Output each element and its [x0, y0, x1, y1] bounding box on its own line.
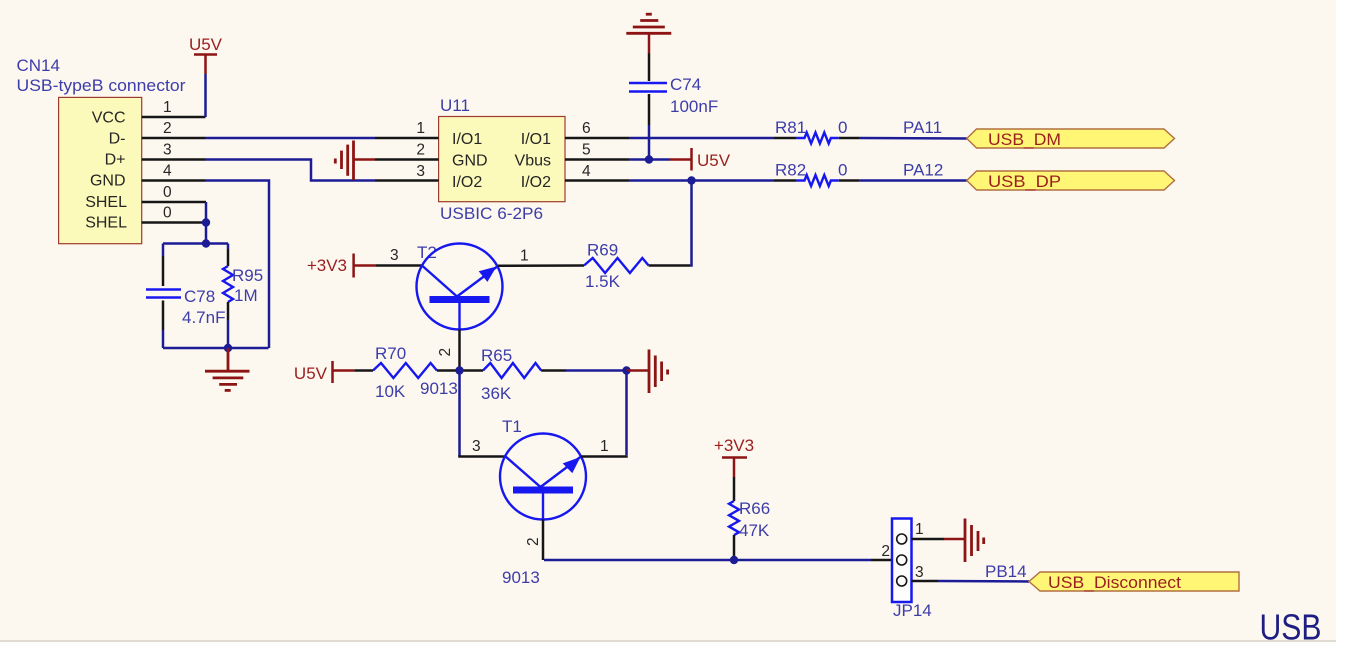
pin T2-1	[498, 264, 584, 267]
wire T1 emitter to JP14	[544, 559, 871, 562]
pin T2-2	[458, 330, 461, 371]
svg-text:4: 4	[582, 163, 591, 180]
svg-text:R66: R66	[739, 499, 770, 518]
svg-text:USB-typeB connector: USB-typeB connector	[17, 76, 186, 95]
pin C78 bottom	[162, 301, 165, 331]
wire RC loop top	[163, 242, 228, 245]
wire Vbus net	[629, 158, 670, 161]
pin R81 left	[774, 137, 796, 140]
svg-text:4: 4	[163, 163, 172, 180]
pin U11-2	[375, 158, 439, 161]
svg-text:GND: GND	[90, 173, 126, 190]
svg-text:D-: D-	[109, 131, 126, 148]
pin R95 top	[227, 249, 230, 266]
pin R66 bottom	[733, 535, 736, 560]
pin T1-2	[542, 520, 545, 561]
svg-text:U5V: U5V	[697, 151, 731, 170]
pin T1-3	[458, 455, 505, 458]
junction SHEL2	[202, 218, 210, 226]
wire R65 to ground junction	[566, 369, 627, 372]
svg-text:C78: C78	[184, 287, 215, 306]
wire T2 down corner to T1 pin3	[458, 455, 461, 457]
svg-text:R82: R82	[775, 161, 806, 180]
wire SHEL down to RC loop	[205, 223, 208, 244]
junction USB_DP / R69 branch	[687, 176, 695, 184]
svg-text:USB_DP: USB_DP	[988, 172, 1061, 191]
wire RC loop bottom	[163, 347, 269, 350]
resistor R66	[729, 501, 739, 535]
resistor R81	[796, 133, 838, 144]
pin CN14-SHEL1	[142, 201, 206, 204]
pin CN14-SHEL2	[142, 221, 206, 224]
ground symbol sideways right of R65	[627, 350, 668, 394]
pin R70 left	[354, 369, 373, 372]
pin R65 left	[460, 369, 484, 372]
pin R82 left	[774, 179, 796, 182]
svg-text:1: 1	[915, 521, 924, 538]
wire R95 to bottom	[227, 320, 230, 348]
pin C74 top	[648, 54, 651, 82]
wire D- net CN14 to U11	[206, 137, 376, 140]
svg-text:1: 1	[163, 99, 172, 116]
svg-text:I/O1: I/O1	[452, 131, 482, 148]
svg-text:3: 3	[472, 438, 481, 455]
pin U11-5	[565, 158, 629, 161]
svg-text:R65: R65	[481, 346, 512, 365]
svg-text:U5V: U5V	[294, 364, 328, 383]
svg-text:R81: R81	[775, 118, 806, 137]
pin U11-6	[565, 137, 629, 140]
pin R82 right	[839, 179, 860, 182]
svg-text:0: 0	[163, 205, 172, 222]
wire VCC to U5V	[204, 74, 207, 117]
svg-text:4.7nF: 4.7nF	[182, 308, 225, 327]
transistor T1	[500, 434, 586, 520]
svg-text:Vbus: Vbus	[515, 153, 551, 170]
svg-text:R69: R69	[587, 241, 618, 260]
svg-text:PA12: PA12	[903, 161, 943, 180]
svg-text:USB: USB	[1260, 607, 1322, 646]
port flag USB_DM	[967, 129, 1175, 149]
power port +3V3 at R66	[714, 436, 754, 477]
svg-text:PA11: PA11	[903, 118, 942, 137]
svg-text:I/O2: I/O2	[452, 174, 482, 191]
pin R70 right	[437, 369, 460, 372]
svg-text:+3V3: +3V3	[714, 436, 754, 455]
pin T2-3	[375, 264, 422, 267]
svg-text:9013: 9013	[420, 379, 458, 398]
svg-text:47K: 47K	[739, 521, 770, 540]
wire USB_DP net	[629, 179, 774, 182]
svg-text:C74: C74	[670, 75, 701, 94]
pin CN14-4	[142, 179, 206, 182]
transistor T2	[417, 244, 503, 330]
svg-text:10K: 10K	[375, 382, 406, 401]
svg-text:VCC: VCC	[92, 110, 126, 127]
resistor R82	[796, 175, 838, 186]
wire R82 to flag	[860, 179, 967, 182]
ground symbol bottom-left	[205, 348, 250, 390]
pin CN14-1	[142, 116, 206, 119]
pin CN14-2	[142, 137, 206, 140]
svg-text:U11: U11	[440, 96, 470, 115]
pin R81 right	[839, 137, 860, 140]
svg-text:36K: 36K	[481, 384, 512, 403]
svg-text:1: 1	[600, 438, 609, 455]
svg-text:6: 6	[582, 120, 591, 137]
junction R65 / ground / T1	[622, 366, 630, 374]
svg-text:9013: 9013	[502, 568, 540, 587]
IC U11 body	[439, 117, 565, 202]
capacitor C74	[629, 83, 667, 92]
power port U5V top-left	[189, 35, 223, 74]
wire R69 up to USB_DP net	[690, 181, 693, 267]
wire junction down to T1 pin1	[625, 371, 628, 456]
junction RC loop bottom	[224, 344, 232, 352]
svg-text:1: 1	[416, 120, 425, 137]
pin JP14-3	[912, 580, 939, 583]
port flag USB_DP	[967, 171, 1175, 191]
svg-text:2: 2	[525, 537, 542, 546]
wire R95 upper lead	[227, 244, 230, 250]
wire T2 collector down	[458, 371, 461, 457]
svg-text:3: 3	[163, 142, 172, 159]
connector CN14 body	[59, 97, 142, 243]
svg-text:2: 2	[881, 543, 890, 560]
wire JP14-3 to flag	[938, 580, 1029, 583]
pin R66 top	[733, 477, 736, 501]
svg-text:USB_Disconnect: USB_Disconnect	[1048, 573, 1181, 592]
pin U11-4	[565, 179, 629, 182]
junction T2 base / R70 / R65	[455, 366, 463, 374]
svg-text:R95: R95	[232, 266, 263, 285]
wire GND net CN14 pin4 down	[206, 181, 270, 349]
svg-text:USB_DM: USB_DM	[988, 130, 1061, 149]
pin JP14-2 stub	[871, 559, 892, 562]
pin R65 right	[541, 369, 566, 372]
svg-text:2: 2	[416, 142, 425, 159]
svg-text:I/O2: I/O2	[521, 174, 551, 191]
ground symbol sideways at JP14	[944, 519, 984, 563]
resistor R65	[483, 363, 541, 378]
power port U5V at R70	[294, 361, 354, 383]
wire SHEL1 down	[205, 202, 208, 223]
svg-text:U5V: U5V	[189, 35, 223, 54]
svg-text:0: 0	[163, 184, 172, 201]
svg-text:2: 2	[163, 120, 172, 137]
svg-text:SHEL: SHEL	[85, 215, 127, 232]
port flag USB_Disconnect	[1029, 572, 1239, 592]
pin U11-1	[375, 137, 439, 140]
svg-text:1M: 1M	[234, 286, 258, 305]
svg-text:1: 1	[520, 248, 529, 265]
svg-text:3: 3	[915, 564, 924, 581]
ground symbol sideways at U11 GND	[335, 141, 375, 181]
svg-text:2: 2	[437, 348, 454, 357]
resistor R69	[584, 258, 649, 273]
pin JP14-1	[912, 538, 945, 541]
svg-text:SHEL: SHEL	[85, 194, 127, 211]
resistor R95	[223, 266, 233, 302]
JP14 pad circle 3	[897, 576, 907, 586]
ground symbol top (above C74)	[626, 14, 671, 53]
svg-text:JP14: JP14	[893, 601, 932, 620]
wire USB_DM net	[629, 137, 774, 140]
power port +3V3 at T2	[307, 254, 375, 278]
svg-text:3: 3	[416, 163, 425, 180]
svg-text:D+: D+	[105, 152, 126, 169]
svg-text:0: 0	[838, 161, 847, 180]
pin T1-1 stub	[581, 455, 628, 458]
svg-text:100nF: 100nF	[670, 97, 718, 116]
svg-text:5: 5	[582, 142, 591, 159]
wire C78 to bottom	[162, 330, 165, 348]
junction Vbus / C74	[645, 155, 653, 163]
resistor R70	[373, 363, 437, 378]
svg-text:R70: R70	[375, 344, 406, 363]
pin U11-3	[375, 179, 439, 182]
pin R69 right	[649, 264, 691, 267]
junction R66 / wire	[730, 556, 738, 564]
pin R95 bottom	[227, 302, 230, 320]
junction RC loop top	[202, 239, 210, 247]
wire C78 upper lead	[162, 244, 165, 257]
JP14 pad circle 1	[897, 534, 907, 544]
wire R81 to flag	[860, 137, 967, 140]
capacitor C78	[146, 290, 181, 298]
wire D+ net CN14 to U11	[206, 160, 376, 181]
svg-text:GND: GND	[452, 153, 488, 170]
power port U5V mid	[670, 148, 731, 171]
svg-text:+3V3: +3V3	[307, 256, 347, 275]
pin C78 top	[162, 256, 165, 286]
connector JP14 body	[892, 519, 912, 603]
wire C74 to Vbus net	[648, 125, 651, 160]
svg-text:PB14: PB14	[985, 562, 1027, 581]
bottom sheet edge	[0, 642, 1346, 646]
svg-text:CN14: CN14	[17, 56, 60, 75]
svg-text:3: 3	[390, 247, 399, 264]
pin C74 bottom	[648, 94, 651, 125]
svg-text:T1: T1	[502, 417, 522, 436]
svg-text:1.5K: 1.5K	[585, 272, 621, 291]
svg-text:I/O1: I/O1	[521, 131, 551, 148]
svg-text:0: 0	[838, 118, 847, 137]
svg-text:USBIC 6-2P6: USBIC 6-2P6	[440, 204, 543, 223]
pin CN14-3	[142, 158, 206, 161]
JP14 pad circle 2	[897, 555, 907, 565]
